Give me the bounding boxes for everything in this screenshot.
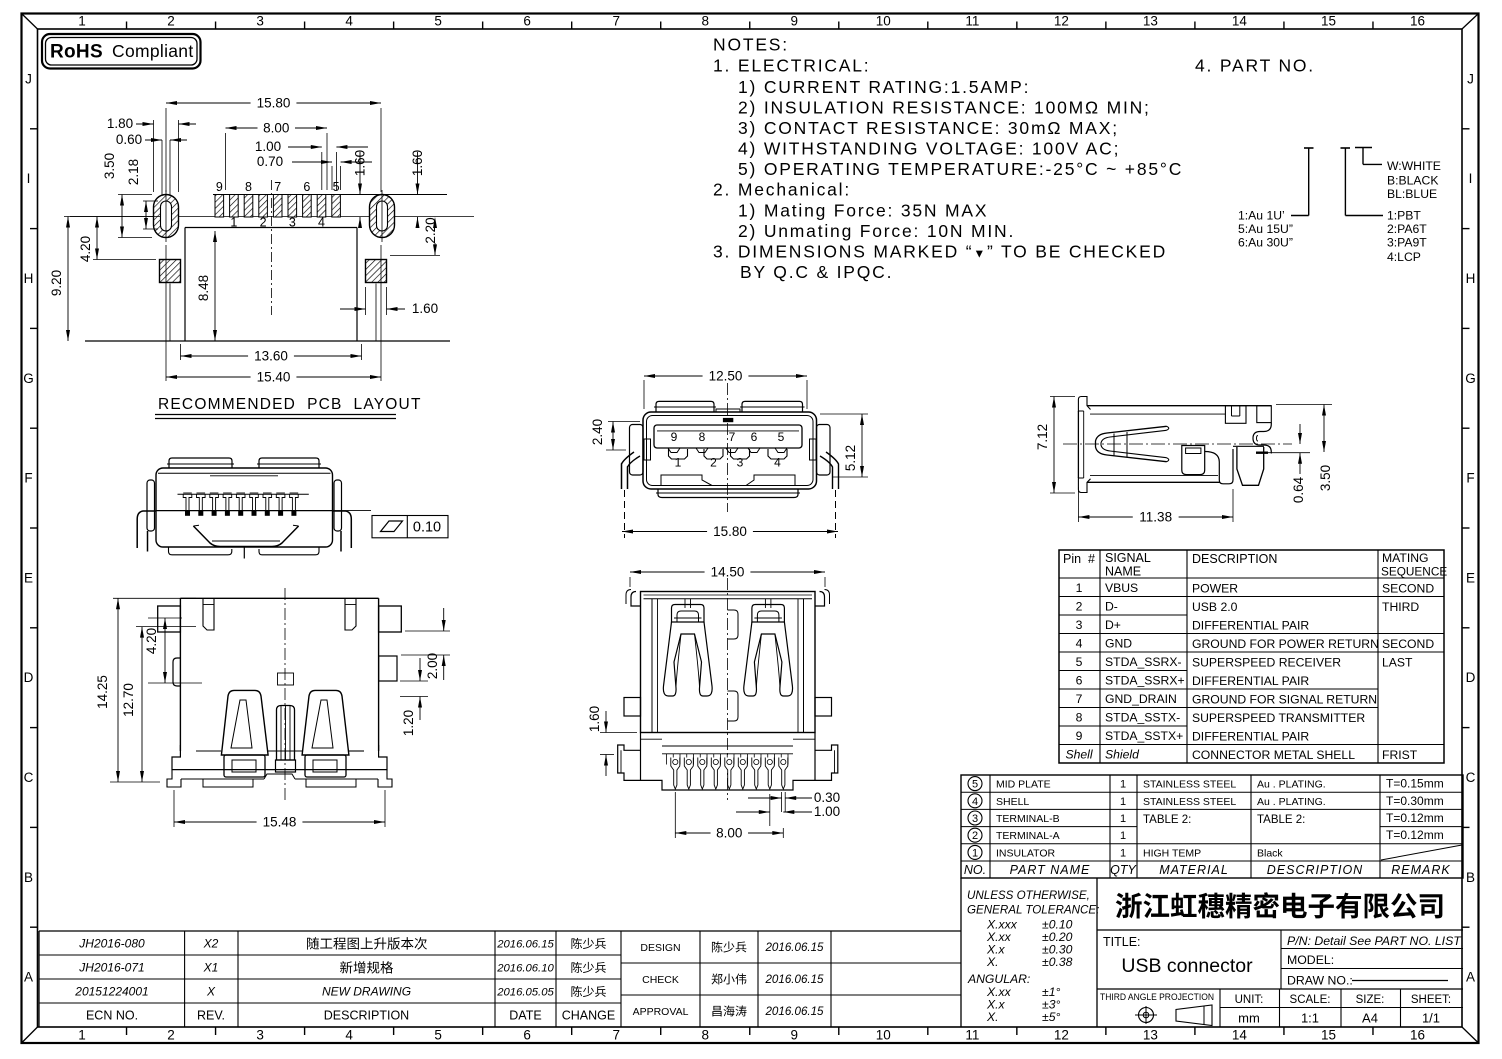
svg-text:1.20: 1.20: [401, 710, 416, 736]
dim 1.00: [321, 152, 323, 190]
tongue notches: [668, 448, 680, 453]
svg-text:DRAW NO.:: DRAW NO.:: [1287, 974, 1353, 988]
svg-text:I: I: [27, 171, 31, 186]
svg-text:H: H: [1466, 271, 1476, 286]
svg-text:2016.05.05: 2016.05.05: [496, 987, 554, 999]
right S grip: [1253, 423, 1271, 454]
contact right: [302, 690, 349, 755]
svg-text:4: 4: [318, 216, 325, 230]
right band: [1205, 449, 1233, 484]
svg-text:Au . PLATING.: Au . PLATING.: [1257, 779, 1326, 791]
svg-text:3: 3: [737, 456, 744, 470]
svg-text:5) OPERATING TEMPERATURE:-25°C: 5) OPERATING TEMPERATURE:-25°C ~ +85°C: [738, 159, 1183, 179]
svg-text:NAME: NAME: [1105, 565, 1141, 579]
svg-text:Pin #: Pin #: [1063, 552, 1095, 566]
svg-text:1. ELECTRICAL:: 1. ELECTRICAL:: [713, 56, 870, 76]
svg-text:TABLE 2:: TABLE 2:: [1143, 814, 1191, 826]
svg-text:SCALE:: SCALE:: [1290, 994, 1331, 1006]
view: connector bottom view: [618, 578, 838, 800]
svg-text:15.48: 15.48: [263, 815, 297, 830]
svg-text:G: G: [23, 371, 34, 386]
svg-text:T=0.12mm: T=0.12mm: [1386, 811, 1444, 825]
dim 1.60 b: [417, 152, 419, 195]
svg-text:mm: mm: [1238, 1011, 1260, 1026]
dim 13.60: [180, 344, 182, 360]
svg-text:1: 1: [1120, 847, 1126, 859]
svg-text:6: 6: [751, 430, 758, 444]
svg-text:4) WITHSTANDING VOLTAGE: 100V: 4) WITHSTANDING VOLTAGE: 100V AC;: [738, 139, 1120, 159]
svg-text:DATE: DATE: [509, 1009, 541, 1023]
tongue: [654, 425, 802, 448]
pad top line: [213, 194, 447, 196]
mid line: [156, 510, 333, 512]
svg-text:2: 2: [972, 830, 978, 842]
dim 3.50: [118, 194, 152, 196]
dim 1.20: [400, 680, 428, 682]
svg-text:9: 9: [671, 430, 678, 444]
svg-text:W:WHITE: W:WHITE: [1387, 159, 1441, 173]
foot: [1233, 445, 1264, 447]
svg-text:SEQUENCE: SEQUENCE: [1381, 565, 1447, 579]
svg-text:10: 10: [876, 1028, 891, 1043]
dim 2.20: [390, 254, 440, 256]
svg-text:9.20: 9.20: [49, 270, 64, 296]
svg-text:4: 4: [345, 14, 353, 29]
svg-text:GND: GND: [1105, 636, 1132, 650]
pad oval right: [370, 195, 395, 238]
svg-text:MATING: MATING: [1382, 551, 1429, 565]
svg-text:7: 7: [729, 430, 736, 444]
svg-text:20151224001: 20151224001: [74, 985, 148, 999]
svg-text:0.10: 0.10: [413, 520, 441, 536]
svg-text:REMARK: REMARK: [1391, 863, 1450, 877]
dim 12.50: [643, 380, 645, 409]
svg-text:5.12: 5.12: [843, 445, 858, 471]
svg-text:X2: X2: [203, 937, 219, 951]
svg-text:CONNECTOR METAL SHELL: CONNECTOR METAL SHELL: [1192, 748, 1355, 762]
dim 4.20: [148, 617, 182, 619]
svg-text:DESCRIPTION: DESCRIPTION: [1192, 552, 1277, 566]
svg-text:2016.06.15: 2016.06.15: [764, 941, 824, 954]
svg-text:DIFFERENTIAL PAIR: DIFFERENTIAL PAIR: [1192, 618, 1309, 632]
svg-text:8: 8: [701, 14, 709, 29]
svg-text:4. PART NO.: 4. PART NO.: [1195, 56, 1315, 76]
dim 8.00: [225, 133, 227, 190]
svg-text:X.: X.: [986, 955, 999, 969]
svg-text:INSULATOR: INSULATOR: [996, 847, 1056, 859]
svg-text:9: 9: [216, 180, 223, 194]
svg-text:BY Q.C & IPQC.: BY Q.C & IPQC.: [740, 262, 893, 282]
svg-text:DIFFERENTIAL PAIR: DIFFERENTIAL PAIR: [1192, 674, 1309, 688]
spring contact at 687.8: [663, 599, 712, 696]
svg-text:2) Unmating Force: 10N MIN.: 2) Unmating Force: 10N MIN.: [738, 221, 1015, 241]
svg-text:8: 8: [1076, 710, 1083, 724]
svg-text:1: 1: [78, 1028, 86, 1043]
svg-text:NO.: NO.: [964, 863, 986, 877]
svg-text:2016.06.15: 2016.06.15: [764, 1005, 824, 1018]
svg-text:ECN NO.: ECN NO.: [86, 1009, 138, 1023]
contact left: [221, 690, 268, 755]
svg-text:2.20: 2.20: [423, 217, 438, 243]
dim 15.80: [622, 531, 707, 533]
svg-text:A4: A4: [1362, 1011, 1378, 1026]
svg-text:STAINLESS STEEL: STAINLESS STEEL: [1143, 796, 1236, 808]
svg-text:Shield: Shield: [1105, 747, 1140, 761]
svg-text:1: 1: [1120, 813, 1126, 825]
dim 15.40: [165, 245, 167, 381]
svg-text:STDA_SSRX-: STDA_SSRX-: [1105, 655, 1182, 669]
svg-text:0.64: 0.64: [1291, 476, 1306, 503]
svg-text:CHANGE: CHANGE: [562, 1009, 615, 1023]
centerline: [284, 588, 286, 800]
svg-text:Au . PLATING.: Au . PLATING.: [1257, 796, 1326, 808]
svg-text:THIRD ANGLE PROJECTION: THIRD ANGLE PROJECTION: [1100, 992, 1214, 1002]
body outline: [156, 468, 333, 547]
top tab 1: [1225, 406, 1246, 424]
left legs: [137, 511, 156, 548]
contact center: [277, 706, 295, 761]
svg-text:1.60: 1.60: [587, 706, 602, 732]
dim 1.80: [153, 120, 155, 192]
dim 7.12: [1050, 396, 1075, 398]
dim 3.50: [1276, 404, 1332, 406]
right legs: [826, 452, 839, 489]
svg-text:MATERIAL: MATERIAL: [1159, 863, 1229, 877]
svg-text:C: C: [24, 770, 34, 785]
view: recommended PCB layout: [64, 180, 474, 341]
svg-text:7: 7: [612, 14, 620, 29]
RoHS compliant stamp: [42, 34, 201, 69]
svg-text:DIFFERENTIAL PAIR: DIFFERENTIAL PAIR: [1192, 729, 1309, 743]
svg-text:4: 4: [1076, 636, 1083, 650]
svg-text:D+: D+: [1105, 618, 1121, 632]
svg-text:0.60: 0.60: [116, 132, 142, 147]
side walls: [651, 599, 653, 733]
svg-text:1:Au 1U’: 1:Au 1U’: [1238, 209, 1285, 223]
svg-text:REV.: REV.: [197, 1009, 225, 1023]
body outline: [180, 597, 378, 599]
bottom tab: [658, 489, 798, 498]
pin signal table: [1059, 550, 1447, 763]
wing inner rects: [644, 439, 651, 460]
svg-text:2.40: 2.40: [590, 419, 605, 445]
svg-text:D-: D-: [1105, 599, 1118, 613]
svg-text:8.00: 8.00: [716, 826, 742, 841]
svg-text:FRIST: FRIST: [1382, 748, 1418, 762]
bottom flange: [196, 750, 221, 752]
bottom shelf: [661, 475, 712, 486]
mid cup: [1182, 446, 1205, 475]
svg-text:F: F: [24, 471, 32, 486]
projection symbol cone: [1176, 1005, 1212, 1026]
dim 15.80: [165, 108, 167, 192]
svg-text:0.30: 0.30: [814, 790, 840, 805]
svg-text:2: 2: [1076, 599, 1083, 613]
svg-text:G: G: [1465, 371, 1476, 386]
svg-text:DESCRIPTION: DESCRIPTION: [324, 1009, 409, 1023]
top tab left: [203, 598, 214, 630]
company name (CJK): [1116, 892, 1443, 918]
svg-text:3: 3: [972, 813, 978, 825]
svg-text:X.: X.: [986, 1010, 999, 1024]
svg-text:THIRD: THIRD: [1382, 600, 1419, 614]
dim 0.60: [161, 140, 163, 196]
svg-text:7: 7: [1076, 692, 1083, 706]
bottom lobes: [169, 547, 232, 555]
svg-text:2: 2: [710, 456, 717, 470]
dim 15.48: [173, 790, 175, 827]
svg-text:GROUND FOR SIGNAL RETURN: GROUND FOR SIGNAL RETURN: [1192, 692, 1377, 706]
svg-text:1) CURRENT RATING:1.5AMP:: 1) CURRENT RATING:1.5AMP:: [738, 77, 1030, 97]
svg-text:4: 4: [774, 456, 781, 470]
notes text block: [713, 35, 1315, 283]
svg-text:15.80: 15.80: [257, 96, 291, 111]
svg-text:STDA_SSRX+: STDA_SSRX+: [1105, 673, 1185, 687]
svg-text:15.80: 15.80: [713, 524, 747, 539]
svg-text:15.40: 15.40: [257, 370, 291, 385]
svg-text:STDA_SSTX-: STDA_SSTX-: [1105, 710, 1180, 724]
svg-text:2016.06.15: 2016.06.15: [496, 939, 554, 951]
svg-text:Compliant: Compliant: [112, 41, 193, 61]
svg-text:1:1: 1:1: [1301, 1011, 1319, 1026]
svg-text:1: 1: [1076, 581, 1083, 595]
flatness callout: [333, 510, 371, 512]
svg-text:CHECK: CHECK: [642, 974, 679, 986]
svg-text:3: 3: [289, 216, 296, 230]
svg-text:2016.06.10: 2016.06.10: [496, 963, 554, 975]
right wing: [334, 480, 342, 531]
svg-text:9: 9: [791, 1028, 799, 1043]
svg-text:C: C: [1466, 770, 1476, 785]
inner tub: [193, 526, 298, 547]
svg-text:X: X: [206, 985, 216, 999]
right wing: [817, 425, 831, 476]
svg-text:13: 13: [1143, 1028, 1158, 1043]
svg-text:7: 7: [274, 180, 281, 194]
svg-text:15: 15: [1321, 14, 1336, 29]
left legs: [622, 452, 635, 489]
svg-text:14.50: 14.50: [711, 565, 745, 580]
svg-text:5: 5: [434, 1028, 442, 1043]
svg-text:JH2016-080: JH2016-080: [78, 937, 145, 951]
svg-text:B: B: [1466, 870, 1475, 885]
svg-text:LAST: LAST: [1382, 655, 1413, 669]
svg-text:11.38: 11.38: [1139, 510, 1172, 525]
lower contacts: [669, 449, 688, 459]
svg-text:USB connector: USB connector: [1121, 955, 1253, 977]
svg-text:2: 2: [167, 14, 175, 29]
lower flange: [641, 738, 663, 740]
tail block: [641, 733, 816, 791]
svg-text:1.00: 1.00: [814, 804, 840, 819]
dim 1.60 a: [359, 152, 361, 195]
svg-text:4: 4: [345, 1028, 353, 1043]
svg-text:1.60: 1.60: [353, 150, 368, 176]
dim 0.70: [331, 166, 333, 190]
left wing: [147, 480, 155, 531]
svg-text:UNLESS OTHERWISE,: UNLESS OTHERWISE,: [967, 889, 1090, 902]
dim 2.00: [405, 630, 450, 632]
centerline horizontal: [64, 216, 474, 218]
svg-text:14: 14: [1232, 14, 1248, 29]
dim 0.30: [781, 792, 783, 812]
svg-text:TERMINAL-A: TERMINAL-A: [996, 830, 1060, 842]
inner top line: [644, 598, 813, 600]
svg-text:2) INSULATION RESISTANCE: 100M: 2) INSULATION RESISTANCE: 100MΩ MIN;: [738, 98, 1151, 118]
svg-text:4:LCP: 4:LCP: [1387, 250, 1421, 264]
svg-text:HIGH TEMP: HIGH TEMP: [1143, 847, 1201, 859]
svg-text:2:PA6T: 2:PA6T: [1387, 222, 1427, 236]
svg-text:VBUS: VBUS: [1105, 581, 1138, 595]
dim 11.38: [1077, 487, 1079, 522]
svg-text:7.12: 7.12: [1035, 424, 1050, 450]
view: connector side view: [1063, 397, 1292, 493]
centerline: [727, 578, 729, 800]
svg-text:USB 2.0: USB 2.0: [1192, 600, 1238, 614]
view: connector rear view: [158, 588, 402, 800]
svg-text:SIGNAL: SIGNAL: [1105, 551, 1151, 565]
svg-text:5: 5: [778, 430, 785, 444]
svg-text:8.48: 8.48: [196, 275, 211, 301]
view: connector top view: [137, 458, 448, 559]
svg-text:1) Mating Force: 35N MAX: 1) Mating Force: 35N MAX: [738, 201, 988, 221]
dim 0.64: [1268, 452, 1310, 454]
pins: [671, 758, 680, 790]
svg-text:3) CONTACT RESISTANCE: 30mΩ MA: 3) CONTACT RESISTANCE: 30mΩ MAX;: [738, 118, 1119, 138]
svg-text:8: 8: [701, 1028, 709, 1043]
title block: [961, 878, 1463, 1027]
dim 9.20: [67, 217, 69, 342]
svg-text:11: 11: [965, 1028, 979, 1043]
svg-text:GROUND FOR POWER RETURN: GROUND FOR POWER RETURN: [1192, 637, 1379, 651]
svg-text:1: 1: [675, 456, 682, 470]
svg-text:D: D: [24, 670, 34, 685]
svg-text:13.60: 13.60: [254, 349, 288, 364]
svg-text:TERMINAL-B: TERMINAL-B: [996, 813, 1060, 825]
svg-text:B: B: [24, 870, 33, 885]
svg-text:13: 13: [1143, 14, 1158, 29]
centerline: [727, 383, 729, 512]
svg-text:2.18: 2.18: [126, 159, 141, 185]
svg-text:A: A: [24, 970, 33, 985]
bottom edge: [1087, 481, 1220, 483]
bottom center line: [243, 547, 245, 559]
hook top-left: [1078, 397, 1090, 412]
svg-text:TITLE:: TITLE:: [1103, 935, 1141, 949]
top tab 2: [1257, 406, 1272, 423]
svg-text:Shell: Shell: [1065, 747, 1092, 761]
svg-text:12.70: 12.70: [121, 683, 136, 717]
svg-text:X1: X1: [203, 961, 219, 975]
top tab left: [169, 458, 232, 468]
ear right: [379, 606, 402, 632]
svg-text:APPROVAL: APPROVAL: [633, 1006, 689, 1018]
svg-text:TABLE 2:: TABLE 2:: [1257, 814, 1305, 826]
dim 2.18: [143, 200, 158, 202]
side bumps: [624, 698, 641, 717]
dim 1.00: [769, 794, 771, 826]
dim 14.25: [113, 597, 196, 599]
dim 2.40: [608, 421, 640, 423]
svg-text:6: 6: [523, 14, 531, 29]
svg-text:RoHS: RoHS: [50, 42, 103, 63]
svg-text:8: 8: [245, 180, 252, 194]
svg-text:±5°: ±5°: [1042, 1010, 1060, 1024]
svg-text:Black: Black: [1257, 847, 1283, 859]
svg-text:E: E: [24, 570, 33, 585]
ear left: [158, 606, 181, 632]
svg-text:16: 16: [1410, 14, 1425, 29]
svg-text:SHEET:: SHEET:: [1411, 994, 1451, 1006]
svg-text:1.60: 1.60: [412, 301, 438, 316]
svg-text:MODEL:: MODEL:: [1287, 953, 1334, 967]
svg-text:SUPERSPEED TRANSMITTER: SUPERSPEED TRANSMITTER: [1192, 711, 1365, 725]
svg-text:3. DIMENSIONS MARKED “▼” TO BE: 3. DIMENSIONS MARKED “▼” TO BE CHECKED: [713, 242, 1167, 262]
svg-text:I: I: [1469, 171, 1473, 186]
svg-text:5:Au 15U”: 5:Au 15U”: [1238, 222, 1293, 236]
right legs: [333, 511, 352, 548]
remark diagonal: [1381, 845, 1462, 860]
svg-text:2.00: 2.00: [425, 653, 440, 679]
projection symbol circle: [1139, 1008, 1154, 1023]
spring latch fork: [1096, 426, 1167, 461]
svg-text:SUPERSPEED RECEIVER: SUPERSPEED RECEIVER: [1192, 655, 1341, 669]
svg-text:MID PLATE: MID PLATE: [996, 779, 1051, 791]
pad square right: [366, 260, 387, 283]
svg-text:±0.38: ±0.38: [1042, 955, 1073, 969]
left wing: [630, 425, 644, 476]
svg-text:14.25: 14.25: [95, 675, 110, 709]
body outline: [641, 592, 816, 733]
svg-text:3: 3: [1076, 618, 1083, 632]
svg-text:15: 15: [1321, 1028, 1336, 1043]
svg-text:12: 12: [1054, 14, 1069, 29]
dim 4.20: [70, 216, 160, 218]
svg-text:1: 1: [230, 216, 237, 230]
svg-text:J: J: [1467, 71, 1474, 86]
svg-text:2: 2: [167, 1028, 175, 1043]
svg-text:NOTES:: NOTES:: [713, 35, 789, 55]
svg-text:ANGULAR:: ANGULAR:: [967, 972, 1030, 986]
top tab right: [259, 458, 319, 468]
dim 14.50: [629, 577, 631, 587]
svg-text:NEW DRAWING: NEW DRAWING: [322, 985, 411, 999]
svg-text:P/N: Detail See PART NO. LIST: P/N: Detail See PART NO. LIST: [1287, 934, 1462, 948]
parts list table: [961, 775, 1463, 878]
top center tab: [716, 409, 740, 412]
dim 1.60: [600, 732, 637, 734]
top tab right: [345, 598, 356, 630]
top edge: [1087, 405, 1271, 407]
svg-text:14: 14: [1232, 1028, 1248, 1043]
svg-text:4.20: 4.20: [78, 236, 93, 262]
svg-text:SECOND: SECOND: [1382, 637, 1434, 651]
centerline vertical: [271, 180, 273, 315]
svg-text:8.00: 8.00: [263, 121, 289, 136]
svg-text:1.60: 1.60: [410, 150, 425, 176]
svg-text:6:Au 30U”: 6:Au 30U”: [1238, 236, 1293, 250]
svg-text:T=0.15mm: T=0.15mm: [1386, 777, 1444, 791]
center tabs: [728, 610, 739, 639]
part number legend: [1238, 148, 1441, 265]
svg-text:1:PBT: 1:PBT: [1387, 209, 1421, 223]
svg-text:2. Mechanical:: 2. Mechanical:: [713, 180, 851, 200]
svg-text:BL:BLUE: BL:BLUE: [1387, 187, 1437, 201]
revision table: [39, 931, 961, 1027]
svg-text:4: 4: [972, 796, 978, 808]
svg-text:STDA_SSTX+: STDA_SSTX+: [1105, 729, 1183, 743]
svg-text:1: 1: [972, 847, 978, 859]
